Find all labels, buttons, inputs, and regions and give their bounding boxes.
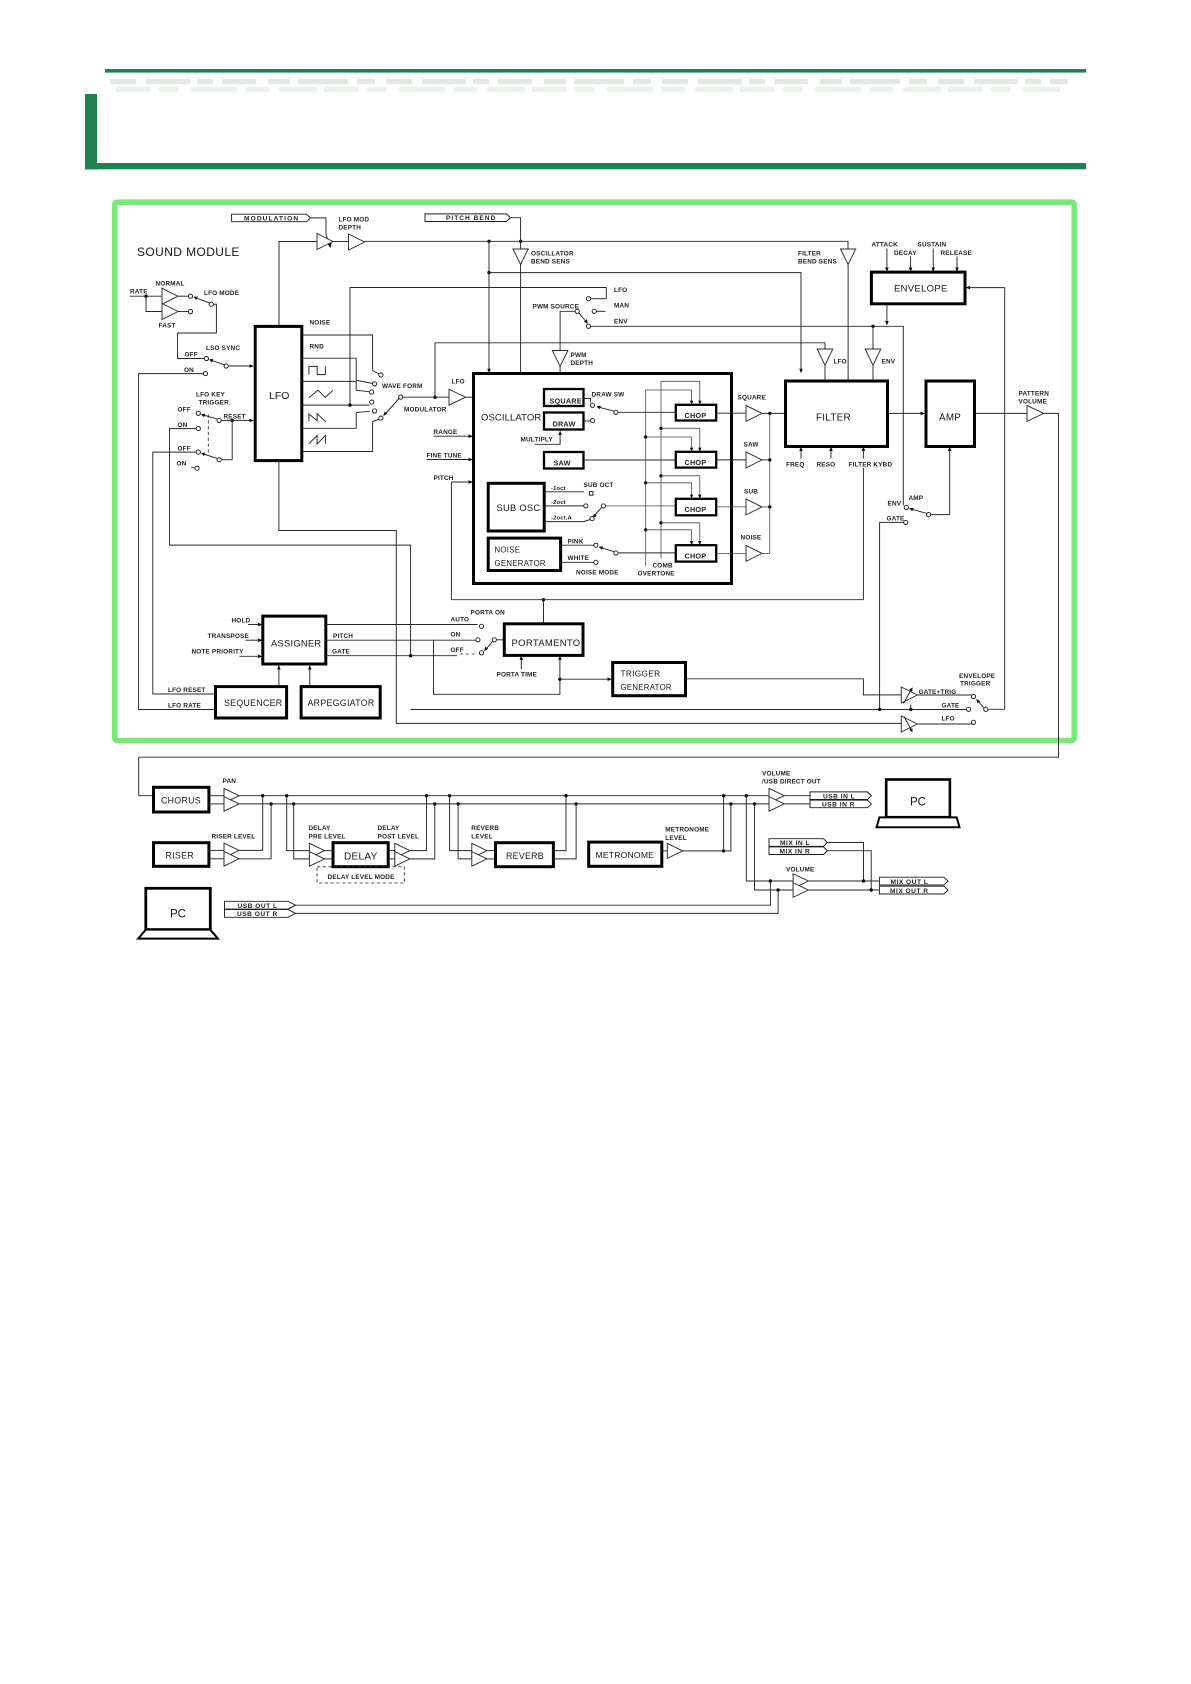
wire assigner pitch out — [326, 639, 476, 641]
svg-text:ENVELOPE: ENVELOPE — [894, 284, 948, 295]
amp U1 modulation VCA — [317, 234, 333, 250]
block REVERB — [496, 843, 554, 867]
block CHOP 3 — [676, 499, 716, 516]
svg-text:RANGE: RANGE — [434, 429, 459, 436]
wire CHOP3 out — [716, 506, 746, 508]
node metronome L — [722, 794, 725, 797]
svg-text:SOUND MODULE: SOUND MODULE — [137, 245, 240, 259]
svg-text:FINE TUNE: FINE TUNE — [427, 452, 463, 459]
wire U12 to rail — [762, 552, 770, 554]
svg-text:TRANSPOSE: TRANSPOSE — [208, 633, 250, 640]
switch SUB OCT common + arm — [601, 504, 605, 508]
svg-text:NOISE: NOISE — [741, 535, 762, 542]
wire mod+bend arrow into oscillator top — [488, 273, 490, 370]
amp U3 oscillator bend sens (pointing down) — [513, 249, 528, 265]
contact DRAW SW draw — [590, 419, 594, 423]
block ARPEGGIATOR — [301, 687, 380, 718]
wire U9 to filter + node — [762, 412, 786, 414]
svg-text:USB IN L: USB IN L — [823, 793, 855, 800]
svg-text:PWM SOURCE: PWM SOURCE — [533, 304, 580, 311]
wire filter bend sens output into filter top — [847, 265, 849, 382]
svg-text:AMP: AMP — [939, 413, 961, 424]
amp U28 metronome level — [667, 843, 682, 858]
wire reverb return R — [553, 804, 576, 859]
svg-text:DEPTH: DEPTH — [339, 225, 362, 232]
switch amp source common + arm — [927, 513, 931, 517]
light green diagram frame — [115, 202, 1074, 740]
wire mix in R to mix out line — [827, 851, 871, 890]
switch NOISE MODE common + arm — [614, 551, 618, 555]
amp U5 NORMAL buffer — [162, 288, 178, 304]
svg-text:BEND SENS: BEND SENS — [798, 259, 837, 266]
wire metronome join buses — [683, 804, 731, 851]
switch PWM SOURCE common + arm to ENV — [575, 309, 579, 313]
contact waveform square — [370, 390, 374, 394]
amp U10 saw out — [746, 452, 762, 468]
svg-text:USB IN R: USB IN R — [822, 802, 855, 809]
svg-text:POST LEVEL: POST LEVEL — [378, 833, 420, 840]
wire LFO output up to modulation VCA — [279, 242, 317, 327]
svg-text:OFF: OFF — [178, 445, 191, 452]
node + wire rails to CHOP4 — [644, 528, 647, 531]
svg-text:RELEASE: RELEASE — [941, 250, 973, 257]
contact noise mode pink — [594, 543, 598, 547]
tag USB OUT R — [225, 910, 296, 919]
svg-text:ASSIGNER: ASSIGNER — [271, 639, 321, 649]
amp U18 pan L — [224, 788, 239, 803]
glyph saw up wave — [309, 436, 326, 445]
wire mix feed L down — [746, 796, 793, 881]
amp U30 usb direct R — [769, 797, 784, 812]
svg-text:USB OUT R: USB OUT R — [237, 911, 278, 918]
svg-text:LFO RATE: LFO RATE — [168, 702, 201, 709]
block SQUARE — [544, 389, 584, 406]
svg-text:SUB: SUB — [744, 489, 758, 496]
block RISER — [154, 843, 209, 867]
modulation depth control arrow into U1 — [326, 234, 329, 244]
wire gate+trig out to contact — [917, 694, 971, 696]
svg-text:MIX IN L: MIX IN L — [780, 840, 810, 847]
wire saw block to CHOP2 — [584, 459, 676, 461]
block PORTAMENTO — [504, 624, 583, 656]
wire sub oct common to CHOP3 — [606, 505, 676, 507]
block AMP — [926, 381, 975, 447]
wire PWM common down to PWM depth amp — [560, 311, 575, 350]
contact sub oct -2oct.A — [590, 517, 594, 521]
svg-text:VOLUME: VOLUME — [786, 867, 815, 874]
wire U10 to rail + node — [762, 459, 770, 461]
svg-text:DEPTH: DEPTH — [571, 360, 594, 367]
wire waveform common to LFO buffer — [403, 396, 449, 398]
svg-text:MIX OUT R: MIX OUT R — [890, 888, 929, 895]
svg-text:OFF: OFF — [185, 352, 198, 359]
svg-text:SQUARE: SQUARE — [738, 395, 767, 402]
wire usb out L to mix volume — [296, 881, 771, 905]
amp U24 delay post L — [395, 843, 410, 858]
wire LFO MODE common to LSO SYNC OFF contact — [178, 304, 217, 358]
wire line C mod+bend to filter top — [489, 273, 801, 370]
wire ENV rail from envelope output — [591, 326, 904, 505]
block SEQUENCER — [216, 687, 287, 718]
tag MIX IN R — [769, 847, 827, 856]
wire gate rail to contacts — [411, 709, 967, 711]
node delay tap L + wire — [285, 794, 288, 797]
wire pitch rail (osc pitch / filter kybd) — [451, 599, 863, 601]
wire osc bend sens output into oscillator top — [520, 265, 522, 374]
header top rule — [105, 69, 1086, 73]
wire overtone rail (left) — [646, 390, 692, 566]
svg-text:PORTAMENTO: PORTAMENTO — [512, 638, 581, 649]
wire metronome to level amp — [662, 850, 668, 852]
svg-text:LFO: LFO — [452, 379, 465, 386]
PITCH BEND input tag — [425, 214, 510, 222]
wire noise common to CHOP4 — [618, 552, 676, 554]
svg-text:PINK: PINK — [568, 538, 584, 545]
svg-text:MODULATION: MODULATION — [244, 215, 299, 222]
svg-text:GENERATOR: GENERATOR — [495, 559, 546, 568]
contact key trigger OFF2 — [196, 450, 200, 454]
svg-text:MIX IN R: MIX IN R — [780, 848, 811, 855]
svg-text:OFF: OFF — [451, 647, 464, 654]
node mix feed L — [745, 794, 748, 797]
node reset tie — [231, 419, 234, 422]
wire osc sum rail — [769, 413, 771, 553]
switch porta on common + arm — [492, 638, 496, 642]
contact waveform sawdown — [373, 409, 377, 413]
amp U19 pan R — [224, 797, 239, 812]
switch key trigger common2 + arm — [217, 458, 221, 462]
node reverb tap R + wire — [456, 802, 459, 805]
node PWM tap — [348, 403, 351, 406]
wire riser join L — [239, 796, 263, 851]
contact waveform sawup — [379, 416, 383, 420]
svg-text:LEVEL: LEVEL — [471, 833, 493, 840]
wire LFO square out to contact — [302, 381, 370, 391]
svg-text:ATTACK: ATTACK — [872, 242, 899, 249]
wire draw sw common to CHOP1 — [618, 411, 676, 413]
amp U17 lfo trigger buffer — [901, 716, 917, 732]
node pitch bend join — [519, 240, 522, 243]
svg-text:CHOP: CHOP — [685, 411, 707, 420]
amp U4 filter bend sens (pointing down) — [841, 249, 856, 265]
node delay tap R + wire — [292, 802, 295, 805]
svg-text:LFO: LFO — [614, 287, 627, 294]
wire reverb amps into reverb — [487, 850, 496, 852]
svg-text:ON: ON — [184, 367, 194, 374]
block OSCILLATOR — [474, 374, 732, 584]
wire LFO to filter LFO depth amp — [435, 343, 825, 397]
svg-text:CHOP: CHOP — [685, 458, 707, 467]
wire pattern volume down to chorus input — [139, 413, 1059, 795]
svg-text:RND: RND — [310, 344, 325, 351]
svg-text:TRIGGER: TRIGGER — [199, 400, 230, 407]
contact key trigger ON1 — [196, 427, 200, 431]
svg-text:LFO: LFO — [269, 390, 289, 402]
node ENV rail to filter env amp — [871, 325, 874, 328]
svg-text:RATE: RATE — [130, 289, 148, 296]
contact LFO MODE fast — [188, 309, 192, 313]
svg-text:PORTA TIME: PORTA TIME — [497, 672, 538, 679]
svg-text:AUTO: AUTO — [451, 617, 470, 624]
node usb out join R — [776, 888, 779, 891]
PC laptop (bottom-left) — [138, 888, 218, 938]
svg-text:CHOP: CHOP — [685, 552, 707, 561]
wire fast buffer to contact — [178, 311, 188, 313]
amp U2 LFO MOD DEPTH — [349, 234, 365, 250]
node gate to amp switch — [878, 708, 881, 711]
contact LSO SYNC ON — [203, 372, 207, 376]
wire U11 to rail + node — [762, 506, 770, 508]
wire arpeggiator to assigner — [309, 669, 311, 687]
block ASSIGNER — [263, 616, 326, 664]
amp U6 FAST buffer — [162, 304, 178, 320]
node reverb tap L + wire — [448, 794, 451, 797]
amp U11 sub out — [746, 499, 762, 515]
contact envelope trigger lfo — [971, 720, 975, 724]
wire LFO sawup out to contact — [302, 419, 379, 451]
svg-text:METRONOME: METRONOME — [596, 850, 655, 860]
wire delay return R — [410, 804, 435, 859]
svg-text:BEND SENS: BEND SENS — [531, 259, 570, 266]
svg-text:PITCH: PITCH — [434, 475, 454, 482]
wire pitch bend to line A and osc bend sens — [510, 218, 520, 249]
svg-text:ENVELOPE: ENVELOPE — [959, 673, 996, 680]
wire reverb return L — [553, 796, 566, 851]
svg-text:RISER: RISER — [166, 851, 194, 861]
wire lfo rail from LFO block to U17 — [279, 461, 901, 724]
wire comb rail (right) — [661, 381, 700, 558]
svg-text:FILTER: FILTER — [816, 413, 851, 424]
node usb out join L — [769, 879, 772, 882]
svg-text:PC: PC — [910, 797, 926, 809]
svg-text:HOLD: HOLD — [232, 617, 251, 624]
svg-text:-2oct: -2oct — [551, 500, 566, 506]
node LFO to filter tap — [433, 396, 436, 399]
wire lfo reset rail from sequencer to OFF2 — [153, 452, 216, 694]
svg-text:MODULATOR: MODULATOR — [404, 407, 447, 414]
svg-text:TRIGGER: TRIGGER — [621, 669, 661, 679]
header bottom rule — [97, 163, 1086, 169]
wire U7 into oscillator — [466, 396, 474, 398]
contact waveform rnd — [373, 382, 377, 386]
svg-text:LSO SYNC: LSO SYNC — [206, 345, 240, 352]
svg-text:/USB DIRECT OUT: /USB DIRECT OUT — [762, 779, 821, 786]
tag USB IN R — [810, 800, 871, 809]
wire rate to fast buffer — [146, 296, 162, 311]
amp U23 delay pre R — [309, 852, 324, 867]
svg-text:RESET: RESET — [224, 414, 246, 421]
wire porta common to portamento — [496, 639, 504, 641]
wire chorus out L/R to pan amps — [209, 795, 224, 797]
wire draw block to draw sw contact — [584, 420, 591, 422]
svg-text:SUB OCT: SUB OCT — [584, 482, 614, 489]
wire envelope output down to ENV rail — [886, 304, 888, 322]
node trigger tap — [558, 678, 561, 681]
node + wire rails to CHOP2 — [644, 435, 647, 438]
header ghost text row — [110, 79, 1068, 85]
wire trigger generator out to gate+trig VCA — [686, 679, 902, 695]
svg-text:ENV: ENV — [888, 501, 902, 508]
svg-text:DELAY: DELAY — [378, 825, 401, 832]
contact waveform noise — [379, 373, 383, 377]
svg-text:REVERB: REVERB — [506, 851, 544, 861]
block CHOP 4 — [676, 545, 716, 561]
svg-text:GATE: GATE — [332, 649, 351, 656]
wire LFO rnd out to contact — [302, 358, 373, 383]
wire L bus — [239, 795, 769, 797]
wire ON1 to gate rail — [170, 429, 411, 656]
svg-text:NOISE: NOISE — [495, 546, 521, 555]
svg-text:MULTIPLY: MULTIPLY — [521, 437, 554, 444]
svg-text:PAN: PAN — [223, 778, 237, 785]
wire modulation tag to mod VCA — [310, 218, 326, 234]
wire U1 to U2 — [333, 241, 349, 243]
svg-text:COMB: COMB — [653, 563, 673, 570]
contact key trigger ON2 — [195, 466, 199, 470]
svg-text:ON: ON — [178, 422, 188, 429]
wire LFO triangle out to contact — [302, 404, 370, 406]
wire normal buffer to contact — [178, 295, 188, 297]
wire common2 to gang tie — [221, 459, 232, 461]
svg-text:LFO MODE: LFO MODE — [204, 290, 240, 297]
wire pre amps into delay — [325, 850, 334, 852]
block CHOP 2 — [676, 452, 716, 468]
wire riser out to level amps — [209, 849, 224, 851]
contact waveform triangle — [370, 400, 374, 404]
svg-text:VOLUME: VOLUME — [762, 771, 791, 778]
node rate split — [144, 295, 147, 298]
gang dashed link — [207, 415, 209, 454]
svg-text:VOLUME: VOLUME — [1019, 399, 1048, 406]
svg-text:RISER LEVEL: RISER LEVEL — [212, 833, 256, 840]
svg-text:AMP: AMP — [909, 495, 924, 502]
switch DRAW SW common + arm — [614, 410, 618, 414]
contact amp gate + wire to gate rail — [904, 520, 908, 524]
switch key trigger common1 + arm — [217, 418, 221, 422]
svg-text:NORMAL: NORMAL — [156, 281, 185, 288]
svg-text:-2oct.A: -2oct.A — [551, 515, 573, 521]
block FILTER — [786, 381, 888, 447]
svg-text:CHORUS: CHORUS — [161, 796, 201, 806]
amp U25 delay post R — [395, 852, 410, 867]
tag MIX OUT L — [879, 877, 948, 886]
node riser R — [269, 802, 272, 805]
block CHORUS — [154, 787, 209, 812]
svg-text:DELAY: DELAY — [344, 852, 378, 863]
node metronome R — [729, 802, 732, 805]
contact PWM SOURCE env — [586, 324, 590, 328]
svg-text:-1oct: -1oct — [551, 486, 566, 492]
wire filter to amp — [888, 412, 922, 414]
wire portamento output to pitch rail — [543, 600, 545, 624]
node mod line branch — [487, 240, 490, 243]
svg-text:LFO: LFO — [942, 716, 955, 723]
svg-text:PRE LEVEL: PRE LEVEL — [309, 833, 346, 840]
wire pitch rail down to portamento line — [450, 482, 452, 600]
contact noise mode white — [594, 560, 598, 564]
svg-text:PORTA ON: PORTA ON — [471, 610, 506, 617]
MODULATION input tag — [232, 214, 311, 222]
wire LFO noise out to contact — [302, 335, 379, 374]
wire delay return L — [410, 796, 427, 851]
wire mix feed R down — [755, 804, 794, 890]
svg-text:OVERTONE: OVERTONE — [638, 571, 676, 578]
wire rate input — [130, 295, 162, 297]
wire mix out L + node — [808, 880, 879, 882]
wire envelope trigger rail into envelope right — [970, 287, 1005, 289]
wire lfo rate rail from sequencer to LSO SYNC ON — [139, 374, 216, 710]
svg-text:MIX OUT L: MIX OUT L — [891, 879, 929, 886]
dashed DELAY LEVEL MODE group — [317, 867, 404, 883]
wire square block to draw sw contact — [584, 399, 591, 403]
block LFO — [255, 326, 302, 460]
svg-text:PWM: PWM — [571, 352, 587, 359]
svg-text:DRAW: DRAW — [553, 420, 576, 429]
svg-text:LFO MOD: LFO MOD — [339, 217, 370, 224]
wire usb out R to mix volume — [296, 890, 778, 913]
svg-text:LFO KEY: LFO KEY — [196, 392, 226, 399]
block ENVELOPE — [871, 272, 965, 304]
svg-text:ON: ON — [177, 461, 187, 468]
svg-text:SAW: SAW — [744, 442, 760, 449]
svg-text:SUB OSC: SUB OSC — [497, 503, 541, 513]
svg-text:PITCH BEND: PITCH BEND — [446, 215, 496, 222]
wire CHOP4 out — [716, 552, 746, 554]
svg-text:NOISE MODE: NOISE MODE — [576, 570, 619, 577]
svg-text:DECAY: DECAY — [894, 250, 917, 257]
svg-text:OFF: OFF — [178, 407, 191, 414]
wire mix out R + node — [808, 889, 879, 891]
contact LFO MODE normal — [188, 294, 192, 298]
svg-text:RESO: RESO — [817, 462, 836, 469]
switch envelope trigger common + arm — [984, 707, 988, 711]
contact DRAW SW square — [590, 403, 594, 407]
PC laptop (top) — [877, 780, 960, 828]
glyph triangle wave — [309, 390, 333, 397]
amp U32 mix volume R — [793, 883, 808, 898]
svg-text:DELAY: DELAY — [309, 825, 332, 832]
wire filter kybd rail to pitch line — [862, 468, 864, 600]
amp U8 PWM DEPTH (pointing down) — [552, 351, 568, 367]
contact sub oct -2oct — [584, 504, 588, 508]
contact key trigger OFF1 — [196, 411, 200, 415]
svg-text:FILTER: FILTER — [798, 251, 821, 258]
wire pwm depth into SQUARE block — [559, 366, 561, 385]
wire U17 out to contact — [917, 722, 971, 725]
svg-text:SUSTAIN: SUSTAIN — [918, 242, 947, 249]
header left green bar — [85, 94, 97, 170]
wire LFO sawdown out to contact — [302, 411, 370, 428]
svg-text:WAVE FORM: WAVE FORM — [382, 383, 423, 390]
svg-text:FREQ: FREQ — [786, 462, 804, 469]
contact PWM SOURCE lfo — [586, 297, 590, 301]
svg-text:REVERB: REVERB — [471, 825, 499, 832]
svg-text:CHOP: CHOP — [685, 505, 707, 514]
svg-text:WHITE: WHITE — [568, 555, 590, 562]
block SAW — [544, 452, 584, 469]
block TRIGGER GENERATOR — [613, 663, 686, 696]
svg-text:LFO RESET: LFO RESET — [168, 687, 205, 694]
wire R bus — [239, 803, 769, 805]
wire reset into LFO box — [221, 419, 250, 421]
node mix feed R — [753, 802, 756, 805]
svg-text:OSCILLATOR: OSCILLATOR — [531, 251, 574, 258]
contact sub oct -1oct — [589, 492, 593, 496]
amp U21 riser level R — [224, 852, 239, 867]
svg-text:TRIGGER: TRIGGER — [960, 681, 991, 688]
wire CHOP1 out — [716, 412, 746, 414]
amp U22 delay pre L — [309, 843, 324, 858]
